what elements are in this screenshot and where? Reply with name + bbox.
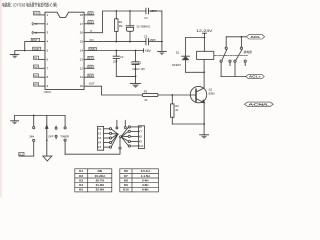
wire pin4 RST to ground rail [25, 42, 45, 51]
wire diode top to coil [186, 37, 205, 39]
resistor R2 [142, 93, 196, 96]
wire coil bottom to transistor collector [203, 59, 205, 88]
switch S2 left contacts [109, 128, 111, 148]
svg-text:MCU: MCU [45, 90, 52, 94]
svg-text:K5: K5 [98, 146, 102, 149]
svg-text:K6: K6 [89, 65, 93, 69]
svg-text:电路图：(CY7C63 电话费节省定时器 IC 解)·: 电路图：(CY7C63 电话费节省定时器 IC 解)· [2, 1, 58, 8]
svg-text:C2: C2 [120, 55, 124, 59]
node K6 label pin12 [88, 65, 93, 69]
svg-text:C3: C3 [144, 34, 148, 38]
svg-text:2: 2 [47, 22, 49, 26]
svg-text:K7: K7 [124, 174, 128, 178]
capacitor C1 100uF 16V [132, 51, 139, 77]
ground switch rail left [11, 116, 19, 125]
C3 labels [144, 34, 156, 41]
svg-text:15: 15 [80, 40, 84, 44]
ground at pin5 [10, 55, 18, 59]
svg-text:K2: K2 [98, 132, 102, 135]
switch position TIMER [64, 116, 66, 155]
svg-text:20-7H: 20-7H [96, 179, 104, 183]
svg-text:GND: GND [33, 47, 39, 51]
node K7 label pin13 [88, 56, 93, 60]
svg-text:K8: K8 [124, 179, 128, 183]
wire pin5 GND [15, 51, 45, 55]
svg-text:ACN/L: ACN/L [248, 103, 270, 107]
wire pin3 [34, 32, 46, 34]
svg-text:24H: 24H [29, 134, 34, 138]
svg-text:+: + [130, 60, 132, 64]
wire switch top rail [15, 115, 66, 117]
U1 name MCU [45, 90, 52, 94]
wire pin6 [39, 58, 45, 60]
wire pin8 [39, 76, 45, 78]
op-amp U1 : MCU DIP-18 body [45, 12, 84, 89]
node port ACL+ [246, 74, 265, 78]
wire C2 C1 bottom [116, 75, 135, 77]
svg-text:K2: K2 [79, 174, 83, 178]
resistor R3 [171, 95, 174, 124]
capacitor C2 104 [113, 51, 119, 77]
wire pin15 XO oscillator bottom [84, 41, 146, 43]
svg-text:32.768KHZ: 32.768KHZ [136, 24, 150, 28]
wire pin17 [84, 23, 94, 25]
node GND label [33, 47, 41, 51]
svg-text:K10: K10 [34, 12, 39, 16]
svg-text:1N4007: 1N4007 [172, 63, 182, 67]
node K10 label pin1 [33, 12, 40, 16]
wire pin1 [40, 14, 45, 16]
wire R3 bottom to emitter [172, 123, 204, 125]
node junction 12-24V [204, 37, 206, 39]
svg-text:7: 7 [47, 66, 49, 70]
transistor Q1 8050 [190, 86, 206, 124]
wire relay linkage dash line [214, 54, 248, 56]
node K8 label pin17 [88, 20, 93, 24]
svg-text:0.5-1H: 0.5-1H [141, 169, 150, 173]
svg-text:K2: K2 [34, 65, 38, 69]
svg-text:2-4H: 2-4H [142, 179, 149, 183]
svg-text:C4: C4 [144, 16, 148, 20]
svg-text:22-9H: 22-9H [96, 188, 104, 192]
svg-text:K8: K8 [89, 20, 93, 24]
svg-text:VDD: VDD [90, 47, 96, 51]
svg-text:ACL+: ACL+ [249, 75, 262, 79]
ground filter caps [130, 76, 140, 88]
node junction top bus [241, 36, 243, 38]
svg-text:16: 16 [80, 31, 84, 35]
Q1 labels [209, 88, 215, 96]
node port ACN/L [244, 102, 273, 106]
svg-text:R1: R1 [119, 20, 123, 24]
node OFF label [48, 134, 54, 138]
node VDD label pin14 [89, 47, 96, 51]
switch S2 right fan wires [122, 127, 129, 145]
svg-text:21-8H: 21-8H [96, 183, 104, 187]
node K1 label pin6 [33, 56, 38, 60]
svg-text:12-24V: 12-24V [196, 29, 213, 33]
relay contact pole1 [220, 47, 231, 62]
crystal Y1 32.768KHZ [126, 11, 134, 42]
wire to K1 tag [19, 155, 34, 157]
svg-text:6-8H: 6-8H [142, 188, 149, 192]
node 24H label [29, 134, 34, 138]
svg-text:K4: K4 [98, 142, 102, 145]
wire pin7 [39, 67, 45, 69]
wire contact bottom bus [221, 76, 246, 78]
svg-text:14: 14 [80, 49, 84, 53]
svg-text:K1: K1 [79, 169, 83, 173]
svg-text:104: 104 [113, 60, 118, 64]
svg-text:K7: K7 [139, 131, 143, 134]
ground oscillator [158, 51, 167, 55]
switch position 24H [33, 116, 35, 157]
wire J1 row3 [104, 137, 110, 139]
node +5V power [144, 49, 152, 53]
svg-text:K8: K8 [139, 136, 143, 139]
wire pin13 [84, 58, 94, 60]
resistor R1 [115, 11, 118, 42]
wire diode bottom to collector node [186, 71, 205, 73]
svg-text:K5: K5 [89, 74, 93, 78]
svg-text:K9: K9 [139, 141, 143, 144]
wire oscillator caps to ground [161, 11, 163, 51]
wire contact top bus to ACL [226, 36, 246, 38]
C1 labels [130, 60, 145, 71]
wire pin16 XI to oscillator top [84, 11, 146, 33]
node K1 label bottom [19, 152, 24, 156]
D1 labels [172, 51, 182, 68]
wire pin18 [84, 14, 94, 16]
wire pin9 [39, 85, 45, 87]
node junction C2 top [115, 50, 117, 52]
svg-text:ACL: ACL [250, 35, 261, 39]
svg-text:1M: 1M [119, 24, 123, 28]
wire timer to rotary common [65, 149, 120, 154]
svg-text:15-24H: 15-24H [95, 174, 105, 178]
U1 left pin numbers [47, 13, 49, 88]
node OUT label pin10 [89, 82, 95, 86]
node relay name 继电器 [244, 50, 252, 54]
svg-text:11: 11 [80, 75, 83, 79]
connector J2 [138, 126, 144, 149]
C2 labels [113, 55, 124, 63]
wire J2 row5 [130, 145, 138, 147]
svg-text:K10: K10 [139, 145, 144, 148]
switch S2 right wiper [119, 120, 126, 149]
svg-text:10: 10 [80, 84, 84, 88]
table K6-K10 text [123, 169, 150, 192]
svg-text:OFF: OFF [48, 134, 54, 138]
svg-text:12: 12 [80, 66, 84, 70]
U1 right pin numbers [80, 13, 84, 88]
R1 value labels [119, 20, 123, 28]
svg-text:15PF: 15PF [150, 38, 157, 42]
svg-text:X: X [90, 29, 92, 33]
svg-text:D1: D1 [176, 51, 180, 55]
node pin3 input arrow [32, 31, 37, 34]
node junction C1 top [135, 50, 137, 52]
wire J1 row5 [104, 146, 110, 148]
node port ACL [246, 35, 264, 39]
svg-text:13: 13 [80, 57, 84, 61]
svg-text:1K: 1K [144, 98, 147, 102]
svg-text:K1: K1 [20, 152, 24, 156]
svg-text:K6: K6 [124, 169, 128, 173]
node XO label pin15 [90, 38, 95, 42]
diode D1 1N4007 [182, 38, 190, 73]
C4 labels [144, 9, 157, 20]
svg-text:K1: K1 [34, 56, 38, 60]
wire pin11 [84, 76, 94, 78]
relay contact pole2 [234, 47, 246, 62]
wire pin12 [84, 67, 94, 69]
node XI label pin16 [90, 29, 92, 33]
node junction R1 bottom [115, 41, 117, 43]
svg-text:K9: K9 [89, 12, 93, 16]
connector J1 [98, 126, 104, 150]
switch S2 left fan wires [111, 129, 117, 146]
svg-text:17: 17 [80, 22, 84, 26]
node junction collector [203, 71, 205, 73]
Y1 value label [136, 24, 150, 28]
table K1-K5 text [79, 169, 104, 192]
node K3 label pin8 [33, 74, 38, 78]
svg-text:OUT: OUT [89, 82, 95, 86]
svg-text:K3: K3 [98, 137, 102, 140]
wire contact drop 2 [240, 37, 242, 47]
svg-text:K9: K9 [124, 183, 128, 187]
node junction Y1 bottom [129, 41, 131, 43]
wire contact stubs down [221, 62, 245, 76]
svg-text:K5: K5 [79, 188, 83, 192]
node K2 label pin7 [33, 65, 38, 69]
node 12-24V power [196, 29, 213, 52]
node TIMER label [61, 134, 69, 138]
node junction rail 24H [33, 115, 35, 117]
svg-text:K7: K7 [89, 56, 93, 60]
ground switch common [43, 156, 52, 161]
svg-text:K4: K4 [79, 183, 83, 187]
svg-text:R2: R2 [144, 90, 148, 94]
wire J2 row4 [130, 141, 138, 143]
ground emitter [200, 124, 209, 139]
svg-text:Q1: Q1 [209, 88, 213, 92]
svg-text:8050: 8050 [209, 91, 215, 95]
svg-text:+5V: +5V [145, 49, 152, 53]
svg-text:100uF 16V: 100uF 16V [132, 67, 145, 71]
switch S2 right contacts [128, 126, 130, 147]
node junction C3 right [161, 41, 163, 43]
capacitor C4 [146, 8, 162, 14]
node pin2 input arrow [32, 23, 37, 26]
node junction base R3 [171, 94, 173, 96]
svg-text:K1: K1 [98, 128, 102, 131]
svg-text:K6: K6 [139, 126, 143, 129]
svg-text:C1: C1 [138, 60, 142, 64]
node junction C1 bottom [135, 76, 137, 78]
relay coil K [197, 51, 214, 59]
wire J2 row2 [130, 130, 138, 132]
title [2, 1, 58, 8]
capacitor C3 [146, 38, 162, 44]
switch common OFF arm [45, 116, 48, 157]
svg-text:1K: 1K [175, 108, 178, 112]
node RST label [31, 38, 39, 42]
svg-text:继电器: 继电器 [244, 50, 252, 54]
svg-text:4: 4 [47, 40, 49, 44]
svg-text:TIMER: TIMER [61, 134, 69, 138]
svg-text:K10: K10 [123, 188, 129, 192]
svg-text:K3: K3 [34, 74, 38, 78]
table K6-K10 [120, 169, 159, 192]
wire J2 row3 [130, 135, 138, 137]
svg-text:RST: RST [32, 38, 38, 42]
page edge [0, 0, 2, 197]
svg-text:K3: K3 [79, 179, 83, 183]
node junction emitter gnd [203, 123, 205, 125]
switch middle contacts [55, 126, 57, 139]
svg-text:6: 6 [47, 57, 49, 61]
node junction R1 top [115, 10, 117, 12]
wire J1 row1 [104, 128, 110, 130]
node K4 label pin9 [33, 83, 38, 87]
node junction Y1 top [129, 10, 131, 12]
svg-text:1: 1 [47, 13, 49, 17]
wire J1 row2 [104, 132, 110, 134]
R2 labels [144, 90, 148, 102]
svg-text:R3: R3 [175, 104, 179, 108]
node K5 label pin11 [88, 74, 93, 78]
wire pin14 VDD +5V rail [84, 50, 143, 52]
wire J2 row1 [130, 126, 138, 128]
R3 labels [175, 104, 179, 112]
svg-text:K4: K4 [34, 83, 38, 87]
svg-text:18: 18 [80, 13, 84, 17]
svg-text:ON: ON [97, 169, 102, 173]
svg-text:3: 3 [47, 31, 49, 35]
wire pin10 OUT to R2 [84, 86, 142, 95]
svg-text:4-6H: 4-6H [142, 183, 149, 187]
svg-text:15PF: 15PF [150, 9, 157, 13]
wire J1 row4 [104, 142, 110, 144]
wire contact drop 1 [225, 37, 227, 47]
svg-text:9: 9 [47, 84, 49, 88]
switch S2 left wiper [116, 120, 119, 135]
svg-text:5: 5 [47, 49, 49, 53]
svg-text:8: 8 [47, 75, 49, 79]
node K9 label pin18 [88, 12, 93, 16]
wire pin2 [34, 23, 46, 25]
table K1-K5 [75, 169, 112, 192]
svg-text:1-1.5H: 1-1.5H [141, 174, 150, 178]
